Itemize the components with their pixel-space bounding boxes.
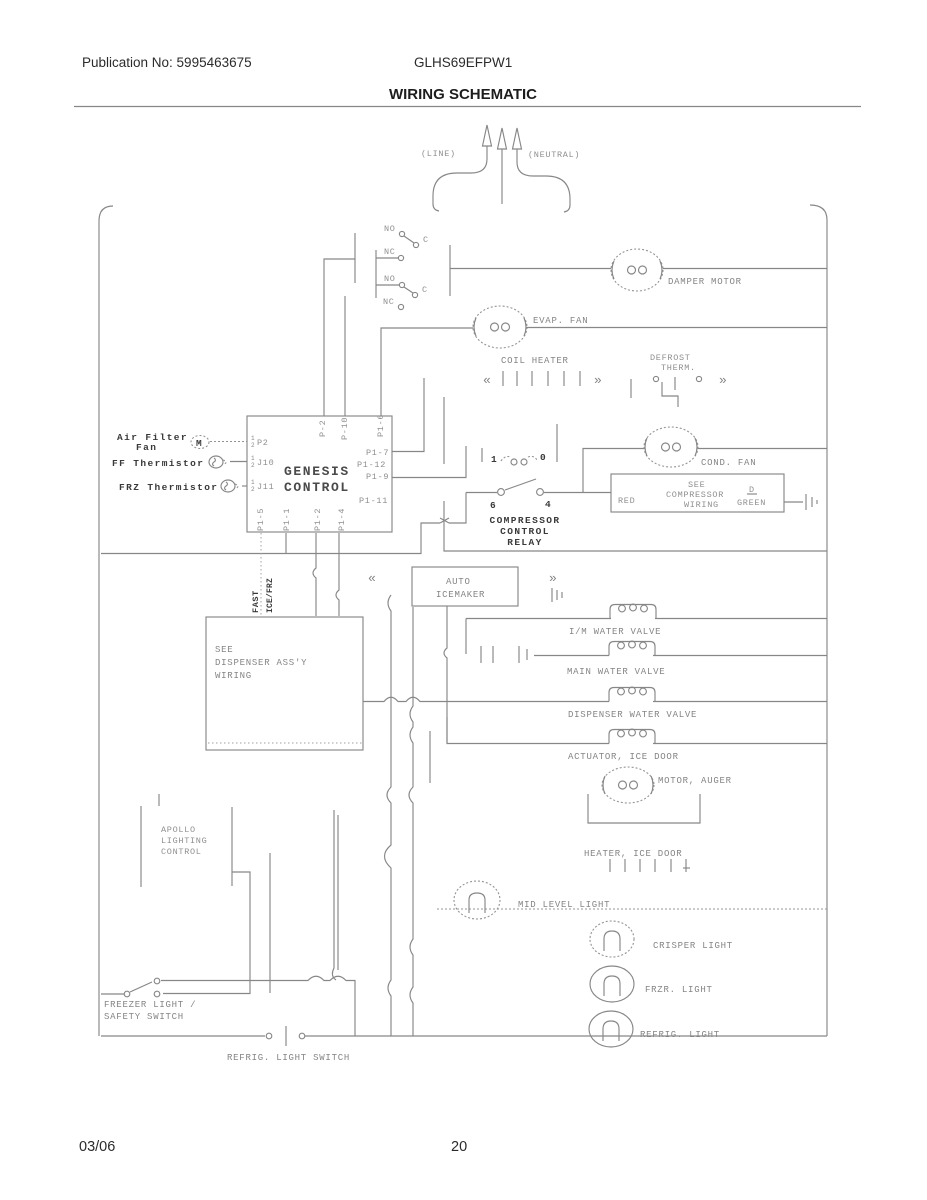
- wire cond fan feed: [583, 449, 644, 493]
- svg-text:1: 1: [251, 479, 255, 486]
- svg-text:EVAP. FAN: EVAP. FAN: [533, 316, 588, 326]
- wire P1-12 stub: [443, 397, 445, 464]
- wire green ground lead: [784, 501, 803, 503]
- svg-text:P1-6: P1-6: [376, 414, 386, 437]
- wire main valve line: [534, 655, 609, 657]
- wire N stem: [517, 149, 570, 212]
- wire NC1: [376, 257, 398, 259]
- svg-text:20: 20: [451, 1139, 467, 1155]
- svg-text:P-2: P-2: [318, 420, 328, 437]
- supply arrow L1: [483, 125, 492, 146]
- wire P1-1 drop: [285, 533, 287, 553]
- svg-text:GENESIS: GENESIS: [284, 464, 350, 479]
- svg-text:4: 4: [545, 499, 552, 510]
- svg-text:APOLLO: APOLLO: [161, 825, 196, 835]
- svg-text:COMPRESSOR: COMPRESSOR: [489, 515, 560, 526]
- wire neutral sub-bus: [444, 501, 827, 551]
- defrost timer switch S1: [482, 424, 557, 465]
- heater ice door element: [610, 859, 690, 872]
- connector main valve: [481, 646, 527, 663]
- svg-text:COMPRESSOR: COMPRESSOR: [666, 490, 724, 500]
- relay contact K2 NO terminal: [399, 282, 404, 287]
- wire apollo to freezer switch: [163, 872, 250, 994]
- svg-text:FREEZER LIGHT /: FREEZER LIGHT /: [104, 1000, 196, 1010]
- wire dashed mid light line: [437, 908, 827, 910]
- svg-text:GREEN: GREEN: [737, 498, 766, 508]
- supply arrow L2: [498, 128, 507, 149]
- solenoid actuator ice door L4: [609, 729, 655, 743]
- svg-text:2: 2: [251, 486, 255, 493]
- wire P1-7 to defrost heater: [392, 378, 424, 452]
- wire M to P2 dashed: [210, 441, 247, 443]
- svg-text:FRZ Thermistor: FRZ Thermistor: [119, 482, 218, 493]
- svg-text:CRISPER LIGHT: CRISPER LIGHT: [653, 941, 733, 951]
- wire dispenser valve line with hops: [363, 697, 609, 701]
- wire crossover X: [440, 518, 449, 523]
- connector icemaker plug: [552, 588, 562, 602]
- svg-text:WIRING: WIRING: [684, 500, 719, 510]
- dispenser assembly box: [206, 617, 363, 750]
- svg-text:ACTUATOR, ICE DOOR: ACTUATOR, ICE DOOR: [568, 752, 679, 762]
- wire contact feed: [375, 250, 377, 298]
- svg-text:CONTROL: CONTROL: [284, 480, 350, 495]
- svg-text:MID LEVEL LIGHT: MID LEVEL LIGHT: [518, 900, 610, 910]
- apollo top stub: [158, 794, 160, 806]
- wire L2 stem: [501, 149, 503, 204]
- wire dotted inside box: [208, 742, 362, 744]
- wire relay to bus step: [449, 493, 466, 524]
- svg-text:DISPENSER WATER VALVE: DISPENSER WATER VALVE: [568, 710, 697, 720]
- freezer light safety switch S2: [124, 978, 160, 997]
- svg-text:CONTROL: CONTROL: [161, 847, 202, 857]
- relay contact K1 NC terminal: [398, 255, 403, 260]
- svg-text:P2: P2: [257, 438, 269, 448]
- schematic outer border left: [99, 206, 113, 1036]
- FRZ thermistor RT2: [221, 480, 238, 492]
- wire P1-4 drop: [336, 533, 339, 616]
- svg-text:CONTROL: CONTROL: [500, 526, 550, 537]
- air filter fan motor M3: [191, 436, 209, 450]
- wire defrost relay left riser: [354, 233, 356, 283]
- genesis control board U1: [247, 416, 392, 532]
- relay contact K1 blade: [404, 236, 414, 243]
- svg-text:DEFROST: DEFROST: [650, 353, 691, 363]
- wire actuator line: [447, 717, 609, 744]
- title underline: [74, 106, 861, 108]
- svg-text:2: 2: [251, 442, 255, 449]
- relay contact K1 C terminal: [413, 242, 418, 247]
- svg-text:C: C: [423, 235, 429, 245]
- wire P1-9: [392, 446, 466, 478]
- apollo lighting control right edge: [231, 807, 233, 886]
- wire IM valve to neutral: [655, 618, 827, 620]
- defrost thermostat right terminal: [696, 376, 701, 381]
- wire bottom rail left: [101, 1035, 265, 1037]
- damper motor M1: [611, 249, 663, 291]
- wire P1-2 drop: [313, 533, 316, 616]
- wire FRZ therm to J11: [242, 485, 247, 487]
- svg-text:Fan: Fan: [136, 442, 157, 453]
- svg-text:«: «: [483, 373, 492, 388]
- apollo lighting control left edge: [140, 806, 142, 887]
- wire damper to neutral: [663, 268, 827, 270]
- wire L1 stem: [433, 146, 487, 211]
- svg-text:«: «: [368, 571, 377, 586]
- svg-text:RED: RED: [618, 496, 635, 506]
- svg-text:J11: J11: [257, 482, 274, 492]
- wire dispenser valve to neutral: [653, 701, 827, 703]
- svg-text:P1-2: P1-2: [313, 508, 323, 531]
- svg-text:P1-1: P1-1: [282, 508, 292, 531]
- svg-text:LIGHTING: LIGHTING: [161, 836, 207, 846]
- svg-text:GLHS69EFPW1: GLHS69EFPW1: [414, 55, 512, 70]
- svg-text:DAMPER MOTOR: DAMPER MOTOR: [668, 277, 742, 287]
- svg-text:SEE: SEE: [215, 645, 233, 655]
- solenoid dispenser water valve L3: [609, 687, 655, 701]
- coil heater element: [503, 371, 580, 386]
- relay contact K2 C terminal: [412, 292, 417, 297]
- supply arrow N: [513, 128, 522, 149]
- svg-text:P-10: P-10: [340, 417, 350, 440]
- defrost thermostat left terminal: [653, 376, 658, 381]
- svg-text:P1-9: P1-9: [366, 472, 389, 482]
- defrost thermostat body: [662, 382, 678, 407]
- refrig light switch S3: [266, 1026, 305, 1046]
- relay contact K2 NC terminal: [398, 304, 403, 309]
- refrigerator light LP4: [589, 1011, 633, 1047]
- svg-text:»: »: [594, 373, 603, 388]
- ground connector: [806, 494, 817, 510]
- defrost thermostat tick: [630, 379, 632, 398]
- svg-text:FAST: FAST: [251, 590, 261, 613]
- svg-text:P1-5: P1-5: [256, 508, 266, 531]
- freezer light LP3: [590, 966, 634, 1002]
- svg-text:MAIN WATER VALVE: MAIN WATER VALVE: [567, 667, 665, 677]
- svg-text:COND. FAN: COND. FAN: [701, 458, 756, 468]
- wire mid rail stub a: [332, 810, 336, 980]
- schematic outer border right: [810, 205, 827, 1036]
- wire damper feed riser: [449, 245, 451, 296]
- svg-text:»: »: [719, 373, 728, 388]
- wire mid rail stub b: [337, 815, 339, 970]
- svg-text:Publication No: 5995463675: Publication No: 5995463675: [82, 55, 252, 70]
- wire to pin P-2: [324, 259, 355, 416]
- condenser fan motor M4: [644, 427, 698, 467]
- wire evap fan to neutral: [527, 327, 827, 329]
- svg-text:1: 1: [251, 435, 255, 442]
- svg-text:WIRING: WIRING: [215, 671, 252, 681]
- relay contact K2 blade: [404, 287, 413, 293]
- wire NO2: [376, 284, 399, 286]
- svg-text:REFRIG. LIGHT: REFRIG. LIGHT: [640, 1030, 720, 1040]
- svg-text:(LINE): (LINE): [421, 149, 456, 159]
- svg-text:WIRING SCHEMATIC: WIRING SCHEMATIC: [389, 86, 537, 103]
- wire FF therm to J10: [230, 461, 247, 463]
- svg-text:AUTO: AUTO: [446, 577, 471, 587]
- wire IM valve bend: [465, 619, 467, 655]
- svg-text:P1-12: P1-12: [357, 460, 386, 470]
- svg-text:FRZR. LIGHT: FRZR. LIGHT: [645, 985, 713, 995]
- svg-text:COIL HEATER: COIL HEATER: [501, 356, 569, 366]
- wire bottom rail right: [305, 1035, 827, 1037]
- svg-text:J10: J10: [257, 458, 274, 468]
- svg-text:0: 0: [540, 452, 547, 463]
- crisper light LP2: [590, 921, 634, 957]
- svg-text:SEE: SEE: [688, 480, 705, 490]
- svg-text:ICE/FRZ: ICE/FRZ: [266, 578, 275, 613]
- svg-text:NO: NO: [384, 224, 396, 234]
- svg-text:REFRIG. LIGHT SWITCH: REFRIG. LIGHT SWITCH: [227, 1053, 350, 1063]
- solenoid IM water valve L1: [610, 604, 656, 618]
- svg-text:ICEMAKER: ICEMAKER: [436, 590, 485, 600]
- svg-text:HEATER, ICE DOOR: HEATER, ICE DOOR: [584, 849, 682, 859]
- mid level light LP1: [454, 881, 500, 919]
- wire icemaker drop: [444, 606, 447, 743]
- svg-text:6: 6: [490, 500, 497, 511]
- svg-text:(NEUTRAL): (NEUTRAL): [528, 150, 580, 160]
- svg-text:NC: NC: [384, 247, 396, 257]
- wire damper feed: [450, 268, 611, 270]
- svg-text:03/06: 03/06: [79, 1139, 115, 1155]
- svg-text:P1-7: P1-7: [366, 448, 389, 458]
- svg-text:MOTOR, AUGER: MOTOR, AUGER: [658, 776, 732, 786]
- defrost thermostat centre tick: [674, 377, 676, 390]
- svg-text:1: 1: [251, 455, 255, 462]
- FF thermistor RT1: [209, 456, 226, 468]
- wire actuator to neutral: [653, 743, 827, 745]
- svg-text:P1-11: P1-11: [359, 496, 388, 506]
- svg-text:THERM.: THERM.: [661, 363, 696, 373]
- svg-text:P1-4: P1-4: [337, 508, 347, 531]
- relay contact K1 NO terminal: [399, 231, 404, 236]
- wire crisper rail: [269, 853, 271, 993]
- wire pin P-10 riser: [344, 296, 346, 416]
- wire cond fan to neutral: [698, 448, 827, 450]
- wire step to P1-1 bus: [101, 523, 440, 554]
- svg-text:SAFETY SWITCH: SAFETY SWITCH: [104, 1012, 184, 1022]
- svg-text:2: 2: [251, 462, 255, 469]
- svg-text:1: 1: [491, 454, 498, 465]
- wire left rail 2: [409, 607, 413, 1036]
- wire left rail 1: [385, 595, 392, 1036]
- evap fan motor M2: [473, 306, 527, 348]
- wire stub right of dispenser box: [429, 731, 431, 783]
- svg-text:»: »: [549, 571, 558, 586]
- svg-text:FF Thermistor: FF Thermistor: [112, 458, 204, 469]
- wire main valve to neutral: [653, 655, 827, 657]
- wire switch NO to rail with hops: [161, 976, 355, 1036]
- svg-text:NC: NC: [383, 297, 395, 307]
- svg-text:RELAY: RELAY: [507, 537, 543, 548]
- wire border to switch common: [101, 993, 124, 995]
- wire auger bracket: [588, 794, 700, 823]
- svg-text:C: C: [422, 285, 428, 295]
- compressor control relay K3: [466, 479, 611, 495]
- see compressor wiring box: [611, 474, 784, 512]
- auto icemaker box: [412, 567, 518, 606]
- wire IM water valve line: [466, 618, 611, 620]
- solenoid main water valve L2: [609, 641, 655, 655]
- svg-text:DISPENSER ASS'Y: DISPENSER ASS'Y: [215, 658, 307, 668]
- wire P1-5 dotted drop: [260, 533, 262, 616]
- wire pin P1-6 riser and evap feed: [381, 328, 473, 416]
- svg-text:I/M WATER VALVE: I/M WATER VALVE: [569, 627, 661, 637]
- svg-text:M: M: [196, 438, 203, 449]
- svg-text:NO: NO: [384, 274, 396, 284]
- auger motor M5: [602, 767, 654, 803]
